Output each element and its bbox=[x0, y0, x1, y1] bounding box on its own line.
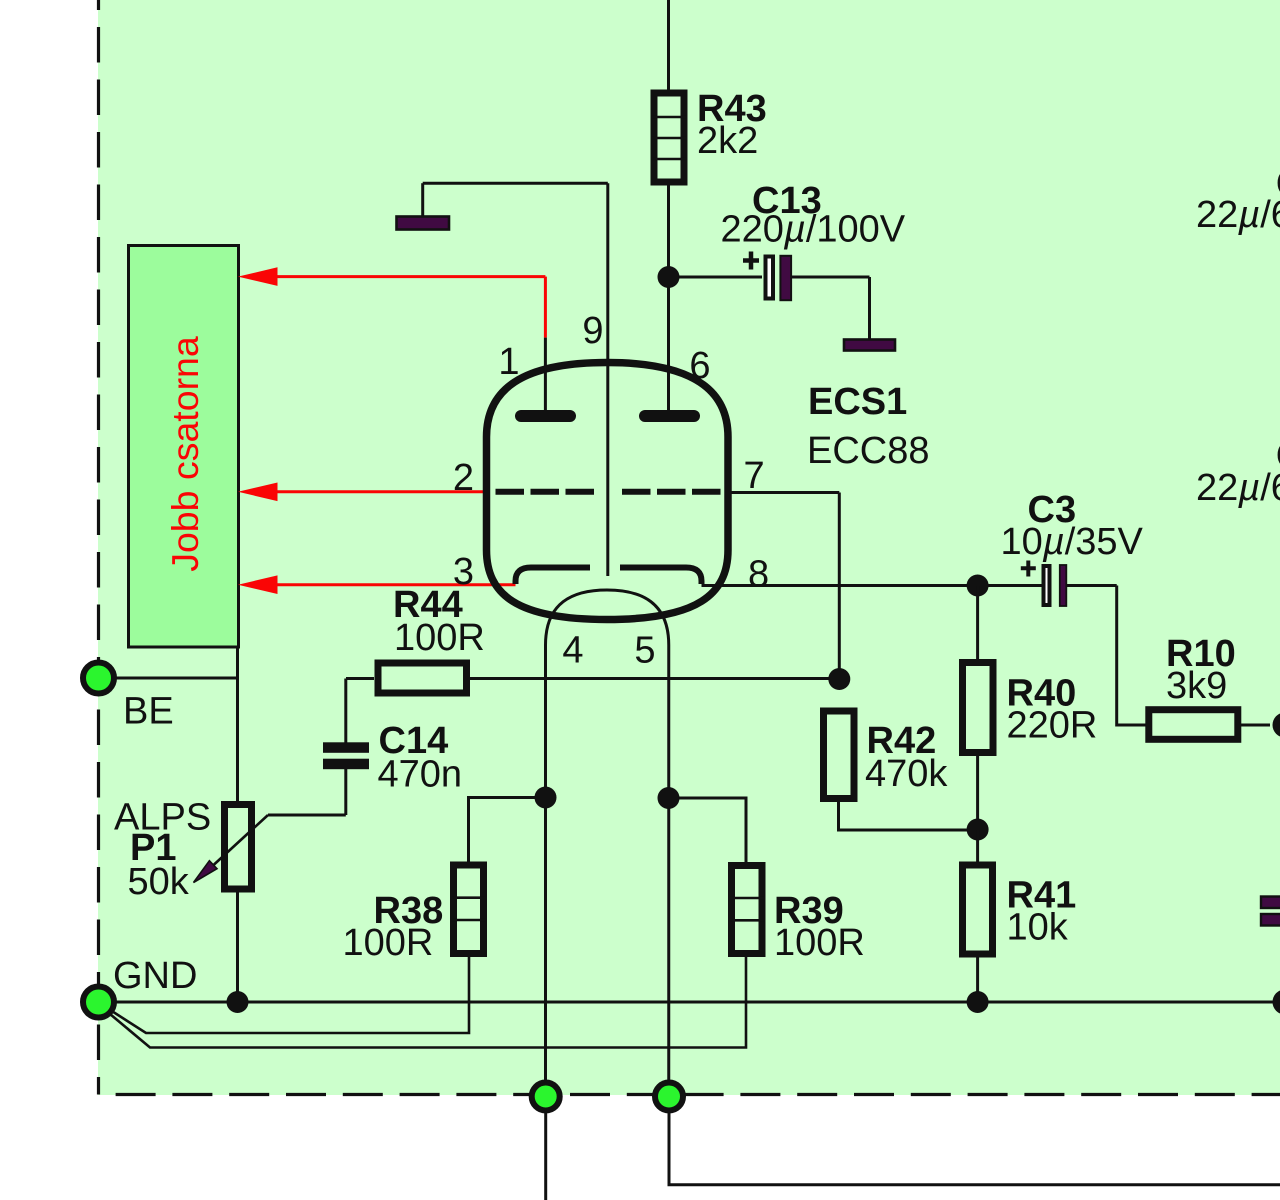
svg-text:2k2: 2k2 bbox=[697, 120, 758, 162]
resistor R10 bbox=[1149, 633, 1270, 739]
svg-text:220µ/100V: 220µ/100V bbox=[721, 209, 906, 251]
svg-text:22µ/63: 22µ/63 bbox=[1196, 467, 1280, 509]
svg-text:100R: 100R bbox=[343, 922, 434, 964]
pin number 4 bbox=[562, 630, 583, 672]
terminal BE bbox=[83, 663, 174, 733]
wire module box to P1 top bbox=[236, 647, 239, 801]
resistor R43 bbox=[652, 88, 767, 182]
svg-text:470k: 470k bbox=[865, 753, 948, 795]
svg-text:100R: 100R bbox=[774, 922, 865, 964]
grid dashed left (pin 2) bbox=[496, 489, 595, 495]
potentiometer P1 bbox=[114, 797, 268, 904]
svg-text:ECC88: ECC88 bbox=[807, 430, 930, 472]
red arrow to box (pin 2 grid) bbox=[238, 483, 487, 502]
svg-text:50k: 50k bbox=[128, 861, 190, 903]
capacitor label C? (cut at right edge, top) bbox=[1196, 163, 1280, 236]
wire below pin5 terminal bbox=[669, 1097, 1280, 1185]
svg-text:9: 9 bbox=[582, 310, 603, 352]
cathode left (pin 3) bbox=[516, 568, 591, 585]
resistor R39 bbox=[730, 866, 865, 965]
node junction R40/R42/R41 bbox=[967, 819, 989, 841]
node junction R44/R42/pin7 bbox=[828, 668, 850, 690]
svg-text:220R: 220R bbox=[1007, 705, 1098, 747]
svg-text:470n: 470n bbox=[378, 754, 463, 796]
resistor R40 bbox=[963, 586, 1098, 830]
svg-text:100R: 100R bbox=[394, 617, 485, 659]
pin number 6 bbox=[689, 345, 710, 387]
svg-text:6: 6 bbox=[689, 345, 710, 387]
capacitor C13 bbox=[669, 180, 906, 340]
wire R44 right to junction bbox=[470, 677, 839, 680]
wire R44 left to C14 bbox=[346, 679, 374, 743]
capacitor C3 bbox=[1001, 489, 1147, 725]
svg-text:ECS1: ECS1 bbox=[808, 381, 907, 423]
capacitor label C? (cut at right edge, middle) bbox=[1196, 435, 1280, 509]
terminal heater pin4 bbox=[532, 1083, 560, 1111]
node junction P1/GND rail bbox=[227, 991, 249, 1013]
wire R42 bottom bbox=[839, 800, 978, 830]
pin number 7 bbox=[744, 455, 765, 497]
svg-text:3k9: 3k9 bbox=[1166, 665, 1227, 707]
svg-text:10k: 10k bbox=[1007, 907, 1069, 949]
node at right edge (bottom) bbox=[1273, 990, 1280, 1015]
pin number 2 bbox=[453, 457, 474, 499]
svg-text:2: 2 bbox=[453, 457, 474, 499]
svg-text:8: 8 bbox=[748, 554, 769, 596]
wire pin 7 to R42 junction bbox=[728, 493, 839, 680]
resistor R44 bbox=[378, 584, 485, 693]
pin number 3 bbox=[453, 551, 474, 593]
node junction R39/pin5 bbox=[658, 787, 680, 809]
wire P1 bottom to GND rail bbox=[236, 892, 239, 1002]
wire pin 8 to C3 bbox=[702, 584, 1042, 587]
wire C14 to P1 wiper bbox=[268, 814, 346, 817]
svg-text:7: 7 bbox=[744, 455, 765, 497]
pin number 1 bbox=[498, 341, 519, 383]
module box Jobb csatorna bbox=[129, 246, 239, 648]
tube ECS1 envelope bbox=[487, 363, 729, 620]
wire GND to R39 bottom bbox=[104, 956, 746, 1048]
pin number 8 bbox=[748, 554, 769, 596]
ground (shield) bbox=[397, 217, 450, 230]
anode right (pin 6) bbox=[645, 410, 694, 422]
cathode right (pin 8) bbox=[620, 568, 702, 585]
svg-text:1: 1 bbox=[498, 341, 519, 383]
node junction R41/GND rail bbox=[967, 991, 989, 1013]
dashed border bottom bbox=[99, 1093, 1280, 1096]
wire below pin4 terminal bbox=[544, 1097, 547, 1200]
red arrow to box (pin 3 cathode) bbox=[238, 575, 516, 594]
resistor R42 bbox=[824, 711, 949, 799]
red arrow to box (pin 1 signal) bbox=[238, 267, 545, 337]
GND rail bbox=[99, 1001, 1280, 1004]
pin number 5 bbox=[634, 630, 655, 672]
node at right edge (R10) bbox=[1273, 713, 1280, 738]
heater dome pins 4,5 bbox=[546, 590, 669, 1096]
node junction R38/pin4 bbox=[535, 787, 557, 809]
svg-text:4: 4 bbox=[562, 630, 583, 672]
internal shield wire (pin 9) bbox=[423, 183, 608, 576]
tube label ECS1 ECC88 bbox=[807, 381, 930, 472]
wire R43 to anode pin 6 bbox=[667, 184, 670, 412]
terminal heater pin5 bbox=[655, 1083, 683, 1111]
wire R39 top to pin5 bbox=[669, 798, 747, 863]
svg-text:22µ/63: 22µ/63 bbox=[1196, 194, 1280, 236]
terminal GND bbox=[83, 955, 197, 1018]
wire BE to vertical bbox=[99, 677, 238, 680]
capacitor C14 bbox=[323, 720, 462, 815]
svg-text:GND: GND bbox=[113, 955, 197, 997]
capacitor plates (cut at right edge) bbox=[1261, 897, 1280, 926]
dashed border left bbox=[97, 0, 100, 1095]
svg-text:Jobb csatorna: Jobb csatorna bbox=[164, 336, 206, 572]
wire GND to R38 bottom bbox=[104, 956, 469, 1033]
resistor R38 bbox=[343, 865, 486, 964]
ground (C13) bbox=[844, 340, 895, 351]
svg-text:5: 5 bbox=[634, 630, 655, 672]
svg-text:BE: BE bbox=[123, 691, 174, 733]
anode left (pin 1) bbox=[521, 338, 570, 416]
grid dashed right (pin 7) bbox=[621, 489, 721, 495]
wire R38 top to pin4 bbox=[469, 798, 546, 864]
resistor R41 bbox=[963, 830, 1077, 1003]
node junction pin8/R40/C3 bbox=[967, 575, 989, 597]
wire B+ from top to R43 bbox=[667, 0, 670, 91]
svg-text:10µ/35V: 10µ/35V bbox=[1001, 521, 1144, 563]
pin number 9 bbox=[582, 310, 603, 352]
node junction R43/C13 bbox=[658, 266, 680, 288]
